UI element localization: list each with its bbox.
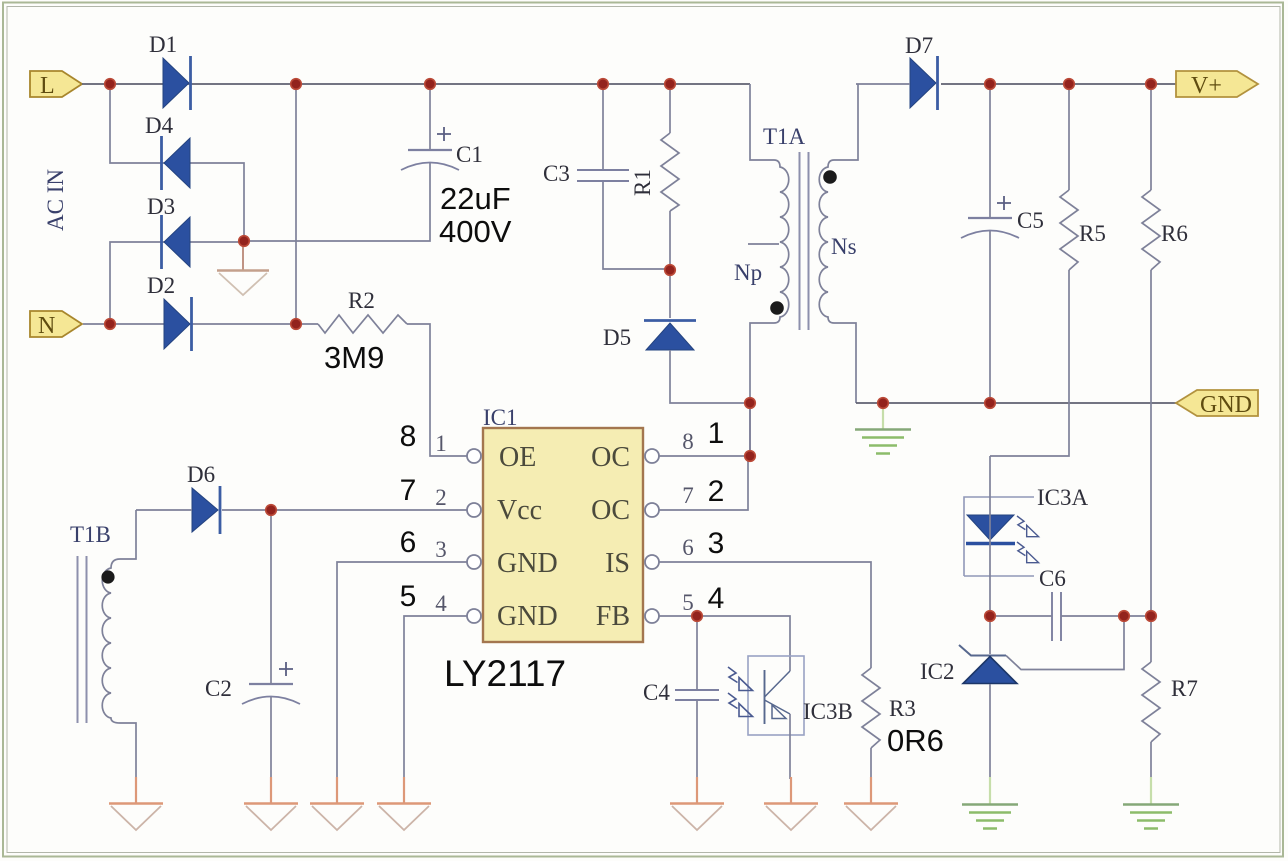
- svg-text:GND: GND: [1200, 392, 1252, 418]
- wire C6 left: [990, 615, 1052, 617]
- wire IC2 reference to divider: [1006, 616, 1124, 670]
- diode D3: [147, 194, 190, 269]
- wire C4 top: [696, 616, 698, 690]
- svg-text:OC: OC: [591, 495, 630, 526]
- svg-text:T1A: T1A: [763, 124, 806, 149]
- svg-text:OC: OC: [591, 442, 630, 473]
- capacitor C5: [961, 196, 1044, 238]
- svg-text:1: 1: [708, 417, 725, 450]
- svg-text:R2: R2: [348, 288, 375, 313]
- wire R6 bottom to divider node: [1150, 270, 1152, 616]
- wire R6 top: [1150, 84, 1152, 190]
- opto-LED IC3A: [964, 485, 1089, 576]
- transformer T1A primary winding Np: [748, 84, 789, 456]
- svg-text:R7: R7: [1171, 676, 1198, 701]
- svg-text:D5: D5: [603, 325, 631, 350]
- svg-text:D7: D7: [905, 33, 933, 58]
- ground (IC3B, red): [764, 777, 818, 830]
- resistor R1: [630, 133, 679, 211]
- wire R1 top: [669, 84, 671, 133]
- wire C1 top: [429, 84, 431, 150]
- polarity dot T1B: [101, 570, 114, 583]
- wire C2 bottom: [270, 697, 272, 779]
- resistor R2: [318, 288, 407, 333]
- IC1 pin numbers left: [435, 431, 447, 616]
- ground (pin3, red): [310, 777, 364, 830]
- transformer T1B core: [78, 556, 87, 723]
- svg-text:R3: R3: [889, 696, 916, 721]
- IC1 pin numbers right: [682, 429, 694, 615]
- svg-text:C5: C5: [1017, 208, 1044, 233]
- svg-text:Vcc: Vcc: [497, 495, 542, 526]
- diode D6: [187, 462, 220, 534]
- IC1 pin names: [497, 442, 630, 632]
- ground (secondary, green): [855, 405, 911, 454]
- svg-text:0R6: 0R6: [887, 723, 944, 758]
- wire R5 to opto LED anode: [990, 270, 1069, 456]
- wire C2C3 riser: [295, 84, 297, 324]
- wire D5 bottom to primary node: [670, 350, 750, 403]
- svg-text:OE: OE: [499, 442, 536, 473]
- wire GND pin3: [337, 562, 467, 779]
- wire R7 top: [1150, 616, 1152, 662]
- svg-text:N: N: [38, 313, 55, 339]
- opto-transistor IC3B: [728, 656, 853, 735]
- wire C1 bottom to bridge ground node: [244, 163, 430, 241]
- wire C3 bottom: [603, 182, 670, 269]
- wire L to D4 to bridge ground node: [110, 84, 244, 241]
- IC1 outer pin numbers left: [400, 420, 417, 613]
- svg-text:C1: C1: [456, 142, 483, 167]
- diode D4: [145, 113, 190, 190]
- svg-text:Ns: Ns: [831, 234, 857, 259]
- svg-text:L: L: [40, 73, 55, 99]
- svg-text:AC IN: AC IN: [43, 169, 68, 231]
- wire R3 bottom: [870, 748, 872, 779]
- wire N to D3: [110, 242, 244, 324]
- wire T1B to D6: [136, 509, 192, 511]
- terminal L: [30, 71, 82, 99]
- wire Ns to D7: [856, 83, 910, 85]
- svg-text:IC3A: IC3A: [1037, 485, 1089, 510]
- terminal V+: [1176, 71, 1258, 99]
- svg-text:2: 2: [708, 475, 725, 508]
- wire C5 bottom: [989, 231, 991, 403]
- svg-text:C4: C4: [643, 680, 670, 705]
- svg-text:6: 6: [400, 526, 417, 559]
- wire C3 top: [602, 84, 604, 169]
- wire OC pin7 to primary node: [659, 458, 748, 510]
- svg-text:2: 2: [435, 485, 447, 510]
- svg-text:8: 8: [400, 420, 417, 453]
- transformer T1A core: [800, 152, 809, 330]
- wire C6 right: [1061, 615, 1151, 617]
- polarity dot Np: [770, 301, 784, 315]
- svg-text:8: 8: [682, 429, 694, 454]
- transformer T1A secondary winding Ns: [819, 84, 858, 403]
- svg-text:D2: D2: [147, 273, 175, 298]
- wire IC2 anode: [989, 684, 991, 777]
- capacitor C2: [205, 662, 300, 704]
- IC1 pin circles: [467, 449, 659, 623]
- svg-text:LY2117: LY2117: [444, 653, 566, 694]
- diode D1: [149, 32, 191, 110]
- resistor R5: [1060, 190, 1106, 270]
- capacitor C1: [401, 127, 483, 170]
- svg-text:IS: IS: [605, 548, 630, 579]
- resistor R6: [1142, 190, 1188, 270]
- svg-text:IC3B: IC3B: [803, 699, 853, 724]
- ground (R7, green): [1123, 777, 1179, 829]
- polarity dot Ns: [823, 170, 837, 184]
- capacitor C6: [1039, 566, 1066, 641]
- wire R2 to pin1 OE: [407, 324, 467, 456]
- svg-text:D6: D6: [187, 462, 215, 487]
- svg-text:T1B: T1B: [70, 522, 111, 547]
- svg-text:Np: Np: [734, 260, 762, 285]
- svg-text:D4: D4: [145, 113, 174, 138]
- wire R7 bottom: [1150, 742, 1152, 777]
- IC1 outer pin numbers right: [708, 417, 725, 615]
- wire FB pin to opto transistor: [659, 616, 790, 671]
- ground (C4, red): [670, 777, 724, 830]
- svg-text:R1: R1: [630, 169, 655, 196]
- svg-text:3: 3: [435, 537, 447, 562]
- svg-text:3: 3: [708, 527, 725, 560]
- wire N row: [83, 323, 318, 325]
- svg-text:5: 5: [682, 590, 694, 615]
- resistor R7: [1142, 662, 1198, 742]
- resistor R3: [862, 668, 916, 748]
- svg-text:C6: C6: [1039, 566, 1066, 591]
- ground (pin4, red): [377, 777, 431, 830]
- svg-text:400V: 400V: [439, 214, 512, 249]
- terminal GND: [1176, 390, 1258, 418]
- wire GND pin4: [404, 616, 467, 779]
- wire R5 top: [1068, 84, 1070, 190]
- wire opto LED vertical: [989, 456, 991, 616]
- shunt regulator IC2: [920, 645, 1017, 684]
- wire D5 top: [669, 270, 671, 318]
- diode D5: [603, 321, 696, 351]
- wire IC3B emitter: [789, 714, 791, 779]
- diode D7: [905, 33, 938, 110]
- svg-text:7: 7: [400, 474, 417, 507]
- svg-text:FB: FB: [596, 601, 630, 632]
- wire C2 top: [270, 510, 272, 684]
- wire IS pin to R3: [659, 562, 871, 668]
- capacitor C4: [643, 680, 719, 705]
- svg-text:7: 7: [682, 483, 694, 508]
- svg-text:GND: GND: [497, 548, 558, 579]
- svg-text:IC1: IC1: [483, 405, 518, 430]
- svg-text:1: 1: [435, 431, 447, 456]
- IC U1 LY2117 body: [483, 405, 643, 642]
- ground (IC2, green): [962, 777, 1018, 829]
- wire L rail: [82, 83, 750, 85]
- wire OC pin8 to primary node: [659, 403, 750, 456]
- wire R1 bottom: [669, 211, 671, 270]
- wire D6 to Vcc: [222, 509, 467, 511]
- svg-text:6: 6: [682, 535, 694, 560]
- wire C5 top: [989, 84, 991, 218]
- svg-text:22uF: 22uF: [440, 181, 511, 216]
- capacitor C3: [543, 161, 629, 186]
- ground (T1B, red): [109, 777, 163, 830]
- svg-text:C2: C2: [205, 676, 232, 701]
- ground (C2, red): [244, 777, 298, 830]
- svg-text:4: 4: [708, 582, 725, 615]
- svg-text:V+: V+: [1191, 73, 1222, 99]
- terminal N: [30, 311, 82, 339]
- wire C4 bottom: [696, 700, 698, 779]
- diode D2: [147, 273, 192, 351]
- wire D7 to V+: [941, 83, 1176, 85]
- svg-text:GND: GND: [497, 601, 558, 632]
- svg-text:IC2: IC2: [920, 659, 955, 684]
- svg-text:R6: R6: [1161, 221, 1188, 246]
- ground (R3, red): [844, 777, 898, 830]
- svg-text:4: 4: [435, 591, 447, 616]
- svg-text:3M9: 3M9: [324, 340, 384, 375]
- svg-text:R5: R5: [1079, 221, 1106, 246]
- ground (bridge, red): [217, 246, 269, 295]
- svg-text:C3: C3: [543, 161, 570, 186]
- wire secondary ground rail: [856, 402, 1176, 404]
- transformer T1B winding: [102, 510, 136, 779]
- svg-text:D1: D1: [149, 32, 177, 57]
- wire IC2 cathode: [989, 616, 991, 654]
- svg-text:5: 5: [400, 580, 417, 613]
